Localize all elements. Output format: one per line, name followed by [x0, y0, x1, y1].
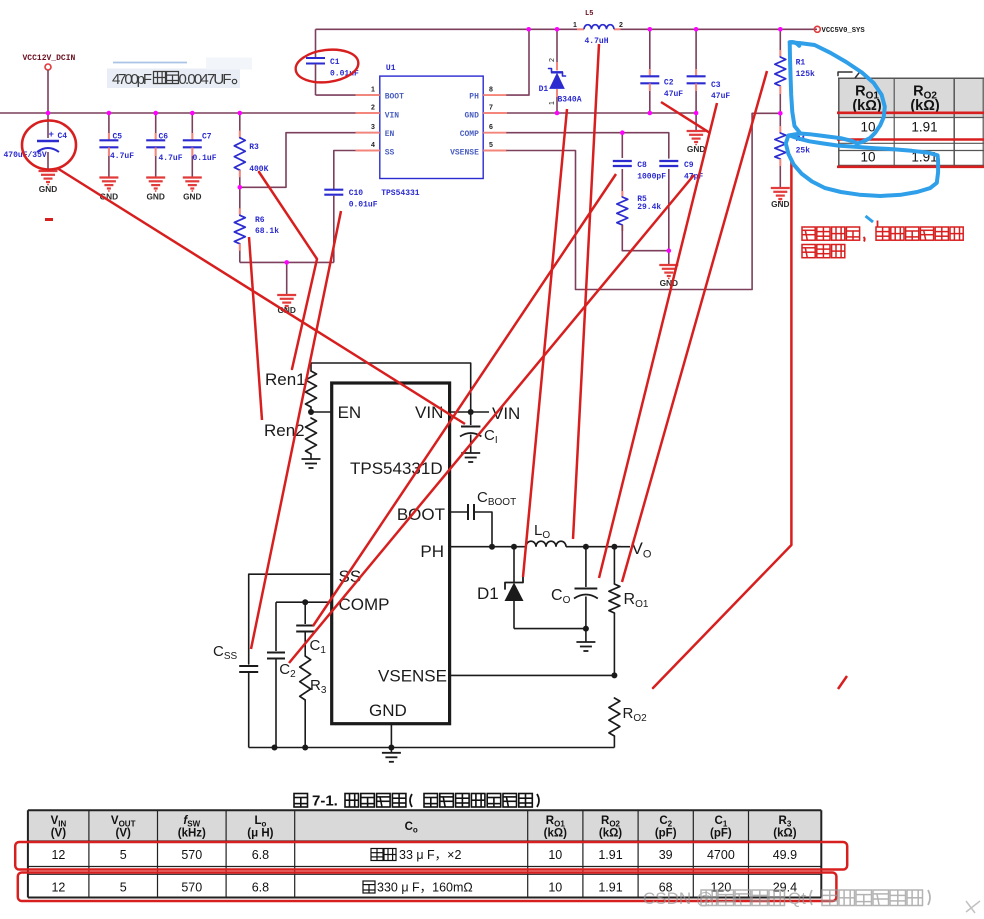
svg-text:49.9: 49.9 — [773, 848, 797, 862]
svg-text:6.8: 6.8 — [252, 848, 269, 862]
wire SS net — [249, 574, 332, 664]
svg-text:1: 1 — [573, 22, 577, 29]
capacitor C2 — [649, 29, 651, 76]
svg-text:C6: C6 — [159, 133, 169, 142]
svg-text:8: 8 — [489, 87, 493, 94]
resistor RO2 — [609, 698, 620, 736]
wire GND rail — [507, 112, 696, 114]
svg-text:33 μ F，×2: 33 μ F，×2 — [399, 848, 461, 862]
wire PH to top — [507, 29, 529, 95]
svg-text:47uF: 47uF — [664, 90, 683, 99]
svg-text:VSENSE: VSENSE — [378, 666, 447, 685]
svg-text:120: 120 — [710, 881, 731, 895]
svg-text:6.8: 6.8 — [252, 881, 269, 895]
red rect row1 — [15, 842, 847, 870]
svg-text:4700: 4700 — [707, 848, 735, 862]
svg-text:2: 2 — [549, 58, 556, 62]
svg-text:29.4k: 29.4k — [637, 203, 661, 212]
diode D1 B340A — [556, 29, 558, 62]
svg-text:7-1.: 7-1. — [312, 793, 338, 810]
red line C10 to CSS — [251, 211, 341, 649]
svg-text:D1: D1 — [539, 85, 549, 94]
svg-text:(kHz): (kHz) — [178, 828, 206, 840]
red ellipse around C1 — [294, 46, 360, 85]
svg-text:1: 1 — [371, 87, 375, 94]
svg-text:570: 570 — [181, 848, 202, 862]
ground — [461, 452, 480, 454]
red circle around C4 — [22, 121, 76, 170]
main table — [28, 810, 821, 897]
capacitor C3 — [695, 29, 697, 76]
wire EN net — [240, 133, 380, 188]
svg-text:(pF): (pF) — [710, 828, 732, 840]
svg-text:+: + — [49, 130, 54, 140]
resistor RO1 — [613, 547, 615, 584]
resistor R5 — [621, 191, 623, 197]
red line C9 to C2 — [289, 175, 694, 663]
junction dots — [46, 111, 51, 116]
wire EN pin — [311, 411, 332, 413]
svg-text:4.7uF: 4.7uF — [110, 152, 134, 161]
wire PH net — [450, 546, 526, 548]
svg-text:Ren1: Ren1 — [265, 370, 306, 389]
red overlay lines on table — [837, 112, 984, 115]
svg-text:12: 12 — [51, 881, 65, 895]
resistor R3 lower — [300, 656, 311, 700]
wire SS net — [334, 151, 380, 189]
resistor R3 — [239, 113, 241, 138]
blue dash — [866, 216, 874, 222]
table RO1 RO2 — [838, 78, 984, 165]
svg-text:GND: GND — [464, 111, 479, 120]
svg-text:GND: GND — [687, 144, 705, 154]
svg-text:C1: C1 — [330, 58, 340, 67]
svg-text:TPS54331D: TPS54331D — [350, 459, 443, 478]
svg-text:1.91: 1.91 — [598, 848, 622, 862]
wire COMP net — [507, 133, 669, 158]
capacitor C1 — [315, 29, 317, 57]
svg-text:COMP: COMP — [339, 595, 390, 614]
watermark — [643, 889, 980, 913]
svg-text:4.7uH: 4.7uH — [585, 37, 609, 46]
resistor R6 — [239, 187, 241, 215]
red line 400K to Ren1 — [259, 172, 317, 369]
svg-text:25k: 25k — [796, 147, 811, 156]
svg-text:2: 2 — [619, 22, 623, 29]
svg-text:Qt: Qt — [788, 889, 806, 908]
svg-text:1.91: 1.91 — [911, 120, 937, 135]
capacitor C4 — [47, 113, 49, 138]
pin 7 GND — [483, 112, 507, 114]
resistor R1 — [779, 29, 781, 50]
svg-text:BOOT: BOOT — [397, 505, 445, 524]
chip U TPS54331D — [332, 383, 450, 724]
capacitor CI — [470, 412, 472, 425]
capacitor C5 — [108, 113, 110, 140]
svg-text:125k: 125k — [796, 70, 815, 79]
svg-text:EN: EN — [385, 130, 395, 139]
svg-text:(V): (V) — [116, 828, 132, 840]
wire D1 to ground rail — [514, 628, 586, 630]
wire bottom rail — [249, 747, 615, 749]
svg-text:2: 2 — [371, 105, 375, 112]
red line 4.7uH to LO — [573, 44, 599, 539]
svg-text:VCC5V0_SYS: VCC5V0_SYS — [822, 27, 866, 35]
svg-text:(μ H): (μ H) — [247, 828, 273, 840]
svg-text:C8: C8 — [637, 161, 647, 170]
svg-text:10: 10 — [548, 848, 562, 862]
red line C4 to CI — [57, 168, 465, 424]
svg-text:7: 7 — [489, 105, 493, 112]
svg-text:10: 10 — [860, 150, 875, 165]
ground — [771, 187, 790, 189]
red rect row2 — [18, 873, 837, 902]
pin 2 VIN — [356, 112, 380, 114]
ground — [668, 251, 670, 265]
svg-text:GND: GND — [369, 701, 407, 720]
svg-text:Ren2: Ren2 — [264, 421, 305, 440]
svg-text:TPS54331: TPS54331 — [381, 189, 420, 198]
ground — [99, 176, 118, 178]
pin 3 EN — [356, 132, 380, 134]
resistor R4 — [779, 113, 781, 126]
ground — [695, 113, 697, 131]
ground — [183, 176, 202, 178]
svg-text:68.1k: 68.1k — [255, 227, 279, 236]
svg-text:R6: R6 — [255, 216, 265, 225]
pin 1 BOOT — [356, 94, 380, 96]
red line C3 to CO — [599, 103, 717, 578]
svg-text:12: 12 — [51, 848, 65, 862]
capacitor C10 — [324, 189, 343, 191]
svg-text:VIN: VIN — [385, 111, 400, 120]
svg-text:B340A: B340A — [558, 96, 582, 105]
svg-text:GND: GND — [183, 192, 201, 202]
svg-text:4: 4 — [371, 142, 375, 149]
svg-text:6: 6 — [489, 124, 493, 131]
capacitor C2 lower — [275, 602, 277, 651]
svg-text:10: 10 — [548, 881, 562, 895]
red line R1 to RO1 — [622, 71, 767, 582]
wire COMP net — [276, 601, 332, 603]
svg-text:5: 5 — [120, 848, 127, 862]
capacitor C8 — [621, 133, 623, 158]
pin 4 SS — [356, 150, 380, 152]
svg-text:(kΩ): (kΩ) — [773, 828, 796, 840]
svg-text:PH: PH — [420, 542, 444, 561]
table title — [294, 793, 539, 810]
svg-text:EN: EN — [338, 403, 362, 422]
svg-text:R1: R1 — [796, 59, 806, 68]
comment text 4700pF — [107, 69, 240, 89]
red minus mark — [45, 218, 53, 221]
svg-text:0.01uF: 0.01uF — [349, 201, 378, 210]
svg-text:1.91: 1.91 — [598, 881, 622, 895]
svg-text:(V): (V) — [51, 828, 67, 840]
svg-text:1: 1 — [549, 101, 556, 105]
capacitor C1 lower — [304, 602, 306, 624]
wire VIN pin — [450, 411, 489, 413]
svg-text:47uF: 47uF — [711, 92, 730, 101]
svg-text:C7: C7 — [202, 133, 212, 142]
svg-text:(kΩ): (kΩ) — [599, 828, 622, 840]
junction dots bottom rail — [272, 745, 278, 751]
ground GND pin — [390, 724, 392, 748]
red line B340A to D1 — [523, 109, 567, 577]
ground — [286, 262, 288, 294]
capacitor C7 — [191, 113, 193, 140]
wire VCC stub — [47, 70, 49, 113]
svg-text:4700pF: 4700pF — [112, 71, 152, 88]
svg-text:GND: GND — [771, 199, 789, 209]
svg-text:C2: C2 — [664, 79, 674, 88]
svg-text:5: 5 — [489, 142, 493, 149]
svg-text:0.1uF: 0.1uF — [193, 154, 217, 163]
svg-text:C9: C9 — [684, 161, 694, 170]
pin 8 PH — [483, 94, 507, 96]
red line C8 to C1 — [313, 174, 616, 626]
svg-text:1000pF: 1000pF — [637, 173, 666, 182]
node VCC5V0_SYS — [814, 26, 820, 32]
red text annotation — [802, 227, 815, 240]
ground — [39, 170, 58, 172]
red line R6 to Ren2 — [249, 237, 262, 420]
svg-text:(kΩ): (kΩ) — [544, 828, 567, 840]
wire top rail to VIN — [311, 363, 471, 412]
red tick mark — [838, 676, 847, 689]
svg-text:C3: C3 — [711, 81, 721, 90]
svg-text:BOOT: BOOT — [385, 92, 404, 101]
wire VSENSE feedback net — [507, 113, 780, 289]
pin 6 COMP — [483, 132, 507, 134]
svg-text:C4: C4 — [58, 132, 68, 141]
blue scribble loop — [790, 42, 885, 143]
svg-text:GND: GND — [660, 278, 678, 288]
svg-text:4.7uF: 4.7uF — [159, 154, 183, 163]
svg-text:VCC12V_DCIN: VCC12V_DCIN — [23, 54, 76, 63]
svg-text:SS: SS — [385, 148, 395, 157]
red line R4 to RO2 — [653, 160, 791, 688]
svg-text:L5: L5 — [585, 10, 593, 18]
svg-text:570: 570 — [181, 881, 202, 895]
red line C2 to GND — [661, 102, 710, 133]
svg-text:PH: PH — [469, 92, 479, 101]
ground — [585, 629, 587, 642]
svg-text:VIN: VIN — [415, 403, 443, 422]
svg-text:R3: R3 — [249, 143, 259, 152]
wire R6 bottom rail — [240, 261, 334, 263]
svg-text:C5: C5 — [113, 133, 123, 142]
svg-text:COMP: COMP — [460, 130, 479, 139]
svg-text:U1: U1 — [386, 64, 396, 73]
svg-text:C10: C10 — [349, 189, 364, 198]
wire top BOOT net — [316, 28, 578, 30]
svg-text:330 μ F，160mΩ: 330 μ F，160mΩ — [377, 881, 473, 895]
node VO — [583, 544, 589, 550]
capacitor C6 — [155, 113, 157, 140]
capacitor C9 — [659, 160, 678, 162]
svg-text:D1: D1 — [477, 584, 499, 603]
svg-text:(pF): (pF) — [655, 828, 677, 840]
ground — [302, 458, 321, 460]
svg-text:39: 39 — [659, 848, 673, 862]
svg-text:3: 3 — [371, 124, 375, 131]
svg-text:5: 5 — [120, 881, 127, 895]
pin 5 VSENSE — [483, 150, 507, 152]
svg-text:GND: GND — [146, 192, 164, 202]
wire main input bus — [0, 112, 380, 114]
svg-text:0.0047UF: 0.0047UF — [179, 71, 232, 88]
ground — [146, 176, 165, 178]
black marks above table — [838, 72, 852, 76]
wire VSENSE net — [450, 674, 615, 676]
capacitor CBOOT — [450, 511, 467, 513]
svg-text:GND: GND — [39, 184, 57, 194]
svg-text:VSENSE: VSENSE — [450, 148, 479, 157]
